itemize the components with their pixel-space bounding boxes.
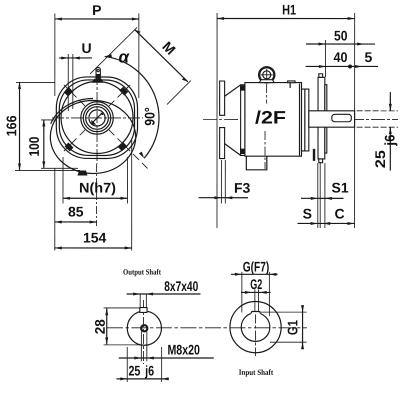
sump ellipse outer arc — [51, 98, 93, 123]
ring inner — [86, 107, 109, 130]
thick bearing ring — [89, 110, 105, 126]
bell cone bottom line — [225, 144, 241, 156]
dimension M — [90, 27, 191, 104]
centerline horizontal front view — [52, 117, 143, 119]
svg-text:N(h7): N(h7) — [79, 179, 116, 195]
output flange top tab — [319, 74, 323, 78]
dimension 8x7x40 — [127, 278, 201, 308]
bore slash — [92, 112, 103, 123]
svg-text:166: 166 — [3, 115, 19, 136]
output shaft circle — [127, 311, 161, 345]
dimension 154 — [55, 140, 132, 251]
dimension H1 — [217, 2, 355, 229]
output center tapped hole — [141, 325, 147, 331]
svg-text:j6: j6 — [144, 362, 154, 378]
body left flange — [241, 85, 245, 156]
svg-text:M8x20: M8x20 — [167, 341, 200, 357]
dimension P — [55, 2, 139, 98]
shared horizontal centerline bottom views — [107, 327, 307, 329]
svg-text:154: 154 — [83, 229, 107, 245]
svg-text:F3: F3 — [234, 180, 251, 196]
diagonal tick SW — [80, 130, 85, 135]
diagonal tick SE — [109, 130, 114, 135]
diagonal tick NE — [109, 101, 114, 106]
dimension 85 — [55, 203, 97, 223]
output shaft keyway — [332, 114, 352, 121]
output flange bottom tab — [319, 159, 323, 163]
bolt centerline SW — [64, 138, 77, 151]
dimension 40 and 5 — [306, 49, 378, 68]
body left bolt top — [240, 85, 245, 90]
body partition line — [266, 84, 268, 104]
input flange bar lower — [220, 128, 225, 159]
dimension U — [59, 40, 92, 111]
sump ellipse — [50, 100, 135, 173]
breather plug hole — [97, 69, 99, 71]
input circle vertical centerline — [255, 314, 257, 357]
dimension G2 — [241, 276, 271, 312]
svg-text:40: 40 — [334, 49, 348, 65]
breather plug stem — [96, 68, 100, 81]
eye bolt ring — [259, 67, 274, 82]
top nub — [288, 81, 295, 83]
output shaft — [309, 111, 355, 127]
end cap — [302, 89, 309, 151]
bolt SE — [118, 142, 127, 151]
bolt centerline SE extension dashes — [133, 154, 139, 160]
bolt centerline NW — [64, 85, 77, 98]
end cap step line — [304, 89, 306, 151]
dimension G(F7) — [231, 259, 278, 317]
output key — [140, 308, 147, 313]
svg-text:50: 50 — [334, 28, 348, 44]
svg-text:S: S — [303, 206, 312, 222]
dimension G1 — [261, 305, 307, 349]
bolt NW — [64, 87, 73, 96]
dimension 25 j6 shaft — [357, 92, 398, 171]
dimension S1 — [301, 163, 349, 228]
dimension M8x20 — [119, 331, 214, 361]
input flange bar upper — [220, 81, 225, 115]
svg-text:/2F: /2F — [255, 108, 286, 128]
svg-text:25: 25 — [372, 150, 388, 168]
input outer circle — [230, 302, 281, 353]
centerline vertical extension to 85 dim — [96, 164, 98, 226]
dimension N(h7) — [63, 157, 128, 204]
centerline vertical front view — [96, 73, 98, 164]
dimension 50 — [306, 28, 375, 78]
bolt SW — [65, 142, 74, 151]
drain plug tab — [78, 170, 88, 175]
housing inner flange outline — [59, 80, 134, 156]
dimension 100 — [26, 119, 78, 168]
dimension 166 — [3, 82, 80, 171]
bolt centerline SE — [118, 138, 131, 151]
input bore circle — [241, 313, 270, 342]
housing outer flange outline — [56, 77, 137, 159]
svg-text:8x7x40: 8x7x40 — [164, 278, 198, 294]
dimension S and C — [297, 206, 354, 225]
dimension F3 — [198, 160, 250, 204]
svg-text:α: α — [119, 47, 131, 66]
svg-text:28: 28 — [92, 319, 108, 334]
dimension 25 j6 output — [116, 347, 169, 382]
svg-text:G1: G1 — [284, 320, 300, 335]
input keyway notch — [251, 312, 261, 314]
sump box — [246, 156, 267, 170]
dimension 28 — [92, 308, 145, 345]
svg-text:C: C — [334, 206, 344, 222]
svg-text:G(F7): G(F7) — [243, 259, 270, 275]
svg-text:j6: j6 — [382, 134, 398, 146]
keyway erase patch — [251, 310, 261, 314]
bolt NE — [119, 87, 128, 96]
diagonal tick NW — [80, 101, 85, 106]
svg-text:25: 25 — [128, 362, 140, 378]
breather plug band — [96, 74, 101, 81]
svg-text:Input Shaft: Input Shaft — [239, 368, 274, 377]
output flange thin plate — [325, 85, 327, 153]
bolt centerline NE — [118, 85, 131, 98]
svg-text:100: 100 — [26, 136, 42, 156]
svg-text:S1: S1 — [332, 180, 349, 196]
bell cone top line — [225, 85, 241, 96]
bolt circle face — [61, 81, 133, 153]
svg-text:5: 5 — [365, 49, 373, 65]
svg-text:G2: G2 — [250, 276, 262, 292]
svg-text:P: P — [92, 2, 101, 18]
svg-text:Output Shaft: Output Shaft — [123, 267, 161, 276]
output flange plate — [318, 77, 325, 159]
svg-text:85: 85 — [68, 203, 84, 219]
output circle vertical centerline — [143, 300, 145, 364]
svg-text:90°: 90° — [142, 107, 158, 126]
eye bolt base — [259, 80, 274, 83]
gearbox body — [245, 83, 302, 157]
body left bolt bottom — [240, 149, 245, 154]
ring mid — [83, 104, 110, 131]
ring outer — [81, 102, 113, 134]
centerline side view — [203, 119, 398, 121]
output flange bolt bar — [313, 149, 315, 161]
svg-text:U: U — [82, 40, 92, 56]
svg-text:H1: H1 — [282, 2, 296, 18]
breather plug base — [92, 79, 104, 83]
bore wedge — [91, 120, 96, 125]
angle arc 90 — [105, 54, 159, 158]
